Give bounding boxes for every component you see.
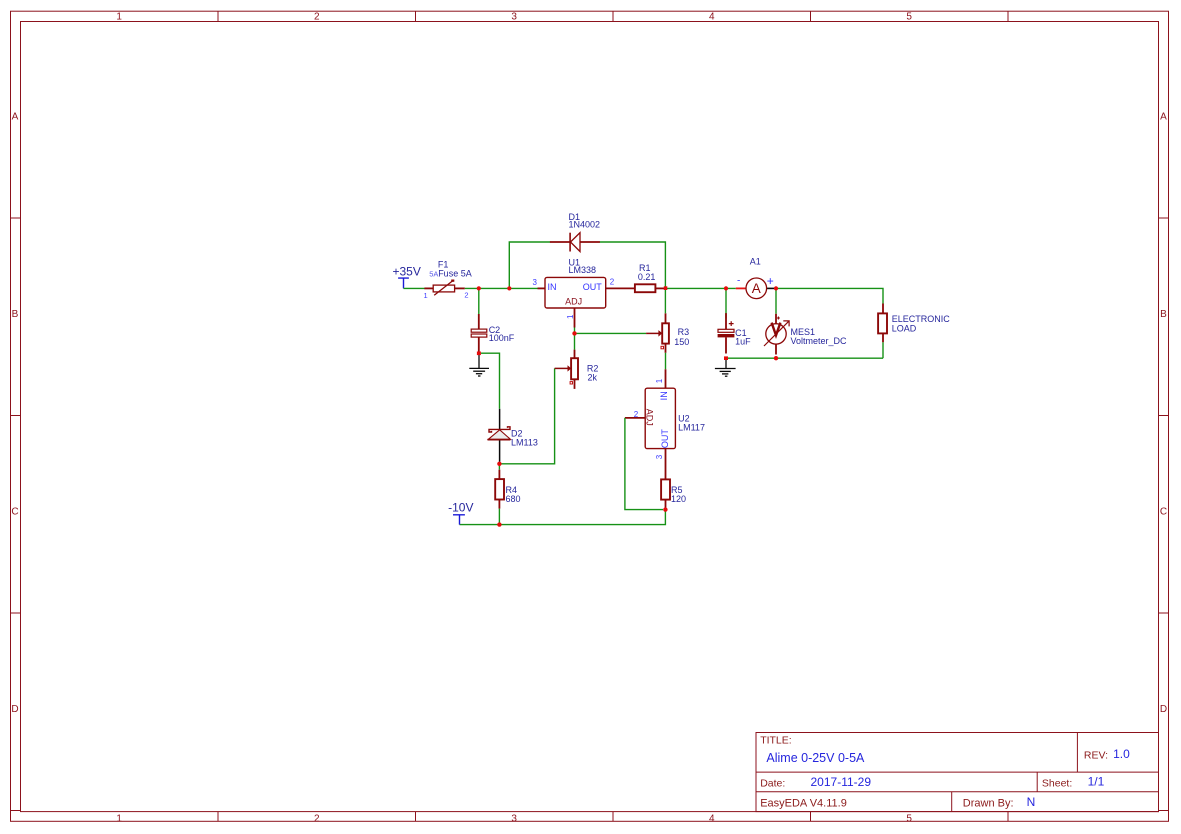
svg-text:LM117: LM117: [678, 423, 705, 433]
svg-text:5: 5: [906, 814, 912, 825]
svg-text:1.0: 1.0: [1113, 747, 1130, 761]
svg-text:2: 2: [634, 410, 639, 419]
op-amp regulator U2 LM117: [625, 369, 676, 479]
svg-text:4: 4: [709, 11, 715, 22]
potentiometer R3: [646, 313, 669, 353]
bottom wire C1 to load: [726, 357, 883, 359]
svg-text:+: +: [767, 274, 774, 288]
svg-text:IN: IN: [659, 391, 669, 400]
svg-text:C: C: [1160, 506, 1167, 517]
svg-text:Alime 0-25V 0-5A: Alime 0-25V 0-5A: [766, 751, 865, 765]
svg-text:IN: IN: [548, 282, 557, 292]
title block labels: [760, 735, 1108, 810]
wire ADJ node to R2: [574, 328, 576, 350]
svg-text:REV:: REV:: [1084, 749, 1108, 761]
junction R4 bottom: [497, 522, 501, 526]
svg-text:Drawn By:: Drawn By:: [963, 798, 1014, 810]
wire output node to A1: [667, 287, 736, 289]
svg-text:OUT: OUT: [660, 429, 670, 449]
svg-text:LOAD: LOAD: [892, 323, 917, 333]
junction ADJ node: [572, 331, 576, 335]
wire F1 to node: [465, 287, 510, 289]
junction square C2 bottom: [477, 352, 481, 356]
frame column numbers top: [116, 11, 912, 22]
wire D1 left vertical: [509, 242, 550, 288]
svg-text:C: C: [11, 506, 18, 517]
svg-text:Voltmeter_DC: Voltmeter_DC: [791, 336, 848, 346]
diode D1: [550, 233, 600, 252]
svg-text:OUT: OUT: [583, 282, 603, 292]
wire R3 to U2 pin1: [665, 353, 667, 370]
frame row letters right: [1160, 111, 1167, 715]
svg-text:Date:: Date:: [760, 778, 785, 790]
junction D2 bottom: [497, 462, 501, 466]
svg-text:-10V: -10V: [448, 501, 473, 515]
svg-text:ADJ: ADJ: [645, 409, 655, 426]
junction at C1 branch: [724, 286, 728, 290]
junction after A1: [774, 286, 778, 290]
svg-text:R3: R3: [678, 327, 690, 337]
svg-text:1: 1: [116, 814, 122, 825]
op-amp regulator U1 LM338: [538, 277, 635, 327]
svg-text:Fuse 5A: Fuse 5A: [438, 268, 472, 278]
junction at D1 branch: [507, 286, 511, 290]
svg-text:EasyEDA V4.11.9: EasyEDA V4.11.9: [760, 798, 847, 810]
wire C2 node to D2: [481, 353, 500, 409]
junction square C1 bottom: [724, 356, 728, 360]
svg-text:B: B: [1160, 309, 1167, 320]
potentiometer R2: [555, 350, 578, 389]
junction at C2 branch: [477, 286, 481, 290]
value Fuse 5A: [429, 268, 472, 278]
svg-text:A: A: [12, 111, 19, 122]
svg-text:1/1: 1/1: [1088, 775, 1105, 789]
svg-text:5A: 5A: [429, 270, 438, 279]
svg-text:0.21: 0.21: [638, 272, 656, 282]
svg-text:150: 150: [674, 337, 689, 347]
wire node to U1 pin3: [509, 287, 537, 289]
resistor ELECTRONIC LOAD: [878, 304, 887, 343]
junction square at R1 output node: [664, 286, 668, 290]
svg-text:D: D: [11, 704, 18, 715]
svg-text:TITLE:: TITLE:: [760, 735, 792, 747]
svg-text:1uF: 1uF: [735, 336, 751, 346]
svg-text:1: 1: [424, 291, 428, 300]
frame column numbers bottom: [116, 814, 912, 825]
svg-text:B: B: [12, 309, 19, 320]
svg-text:2: 2: [464, 291, 468, 300]
svg-text:+35V: +35V: [393, 265, 421, 279]
frame row letters left: [11, 111, 18, 715]
capacitor C2: [471, 314, 487, 352]
svg-text:1: 1: [116, 11, 122, 22]
resistor R1: [635, 284, 664, 292]
voltmeter MES1: [764, 314, 789, 355]
svg-text:1: 1: [566, 314, 575, 319]
svg-text:3: 3: [511, 814, 517, 825]
wire load bottom: [882, 342, 884, 358]
svg-text:3: 3: [655, 454, 664, 459]
svg-text:100nF: 100nF: [489, 333, 515, 343]
title block values: [766, 747, 1130, 809]
net flag -10V: [448, 501, 473, 525]
zener diode D2 LM113: [488, 409, 511, 462]
ammeter A1: [736, 274, 775, 299]
fuse F1: [424, 280, 464, 296]
capacitor C1: [718, 313, 735, 353]
wire D2 junction down: [498, 464, 500, 470]
svg-text:3: 3: [533, 278, 538, 287]
svg-text:1N4002: 1N4002: [569, 220, 601, 230]
svg-text:LM338: LM338: [569, 265, 597, 275]
junction MES1 bottom: [774, 356, 778, 360]
title block: [756, 733, 1159, 812]
resistor R5: [661, 479, 670, 507]
svg-text:A1: A1: [750, 256, 761, 266]
bottom rail wire: [460, 510, 666, 525]
wire D1 right to output node: [600, 242, 666, 287]
svg-text:N: N: [1027, 795, 1036, 809]
svg-text:5: 5: [906, 11, 912, 22]
svg-text:2: 2: [314, 814, 320, 825]
svg-text:-: -: [737, 276, 740, 287]
net flag +35V: [393, 265, 421, 289]
wire A1 to load corner: [776, 288, 883, 303]
wire R1 node down to R3: [664, 288, 666, 313]
svg-text:1: 1: [655, 378, 664, 383]
junction R5 bottom: [663, 507, 667, 511]
wire C2 branch vertical: [478, 288, 480, 318]
svg-text:LM113: LM113: [511, 438, 538, 448]
svg-text:2k: 2k: [588, 373, 598, 383]
svg-text:D: D: [1160, 704, 1167, 715]
svg-text:680: 680: [506, 494, 521, 504]
ground under C2: [469, 353, 489, 376]
resistor R4: [495, 470, 504, 509]
wire ADJ node to R3 wiper: [575, 332, 647, 334]
svg-text:Sheet:: Sheet:: [1042, 778, 1072, 790]
svg-text:2017-11-29: 2017-11-29: [811, 775, 872, 789]
svg-text:120: 120: [671, 494, 686, 504]
svg-text:A: A: [1160, 111, 1167, 122]
wire MES1 branch vertical: [775, 288, 777, 313]
wire R4 to bottom rail: [498, 509, 500, 525]
wire +35V to F1: [404, 287, 425, 289]
wire U2 ADJ loop: [625, 418, 663, 510]
svg-text:4: 4: [709, 814, 715, 825]
ground under C1: [715, 358, 736, 376]
svg-text:A: A: [752, 281, 761, 296]
svg-text:3: 3: [511, 11, 517, 22]
wire D2 junction to R2 wiper: [499, 368, 554, 463]
label ELECTRONIC LOAD: [892, 314, 951, 333]
wire C1 branch vertical: [725, 288, 727, 318]
svg-text:2: 2: [314, 11, 320, 22]
svg-text:ADJ: ADJ: [565, 296, 582, 306]
svg-text:2: 2: [610, 278, 615, 287]
